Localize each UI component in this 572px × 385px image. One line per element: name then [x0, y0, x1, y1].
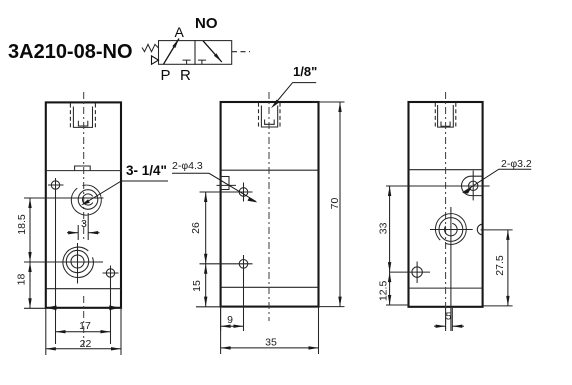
svg-text:27.5: 27.5: [494, 255, 506, 276]
middle view port recess solid profile: [261, 106, 277, 128]
valve symbol port label R: [180, 67, 191, 84]
dimension 22: [46, 308, 121, 355]
svg-text:3- 1/4": 3- 1/4": [126, 163, 167, 178]
middle view top cap line: [221, 169, 319, 171]
right view top pilot hole inner circle: [469, 181, 478, 190]
dimension 17: [56, 320, 111, 332]
dimension 70: [312, 102, 345, 307]
left view left mounting hole: [48, 178, 64, 344]
svg-text:3: 3: [81, 218, 87, 230]
middle view port recess dashed lines: [259, 103, 281, 129]
right view port recess inner step: [441, 122, 450, 127]
right view left mounting hole: [412, 262, 422, 284]
left view port recess solid profile: [73, 107, 92, 128]
right view port recess dashed lines: [435, 103, 456, 129]
leader 2-phi4.3: [172, 160, 258, 202]
middle view vertical centerline: [268, 92, 270, 321]
valve symbol flow arrow P to A: [164, 39, 180, 65]
left view bottom port outer circle: [63, 247, 93, 277]
left view top port outer circle: [71, 185, 101, 215]
svg-text:A: A: [175, 24, 185, 40]
svg-text:9: 9: [227, 314, 233, 326]
svg-text:22: 22: [80, 338, 92, 350]
valve symbol right box: [195, 41, 232, 65]
left view top port inner circle: [78, 190, 98, 210]
left view bottom edge outward arrows: [47, 305, 120, 310]
dimension 18.5: [16, 198, 30, 262]
dimension 3 offset: [67, 213, 100, 240]
leader 2-phi3.2: [462, 158, 532, 194]
svg-text:R: R: [180, 67, 191, 84]
right view body outline: [409, 102, 483, 307]
dimension 33: [378, 186, 490, 272]
middle view lower hole vertical extension: [243, 255, 245, 331]
svg-text:15: 15: [191, 280, 203, 292]
right view top cap line: [409, 169, 483, 171]
right view top pilot hole crosshair: [472, 171, 474, 201]
left view bottom port inner circle: [71, 255, 84, 268]
dimension 26: [190, 192, 206, 264]
svg-text:2-φ4.3: 2-φ4.3: [172, 160, 203, 172]
left view top port thread arc: [82, 194, 92, 205]
title 3A210-08-NO: [8, 41, 133, 63]
left view vertical centerline: [83, 92, 85, 239]
dimension 5: [434, 308, 464, 331]
valve symbol dashed actuation line: [232, 51, 250, 53]
left view port recess dashed lines: [70, 104, 95, 130]
left view body outline: [46, 102, 121, 307]
right view center port vertical line: [450, 207, 452, 331]
valve symbol label NO: [195, 15, 218, 32]
right view left hole horizontal line: [390, 271, 430, 273]
left view top port horizontal centerline: [24, 197, 104, 199]
valve symbol blocked port T right box: [198, 60, 206, 64]
left view bottom port middle circle: [66, 250, 88, 272]
left view port recess inner step: [78, 121, 87, 126]
valve symbol port label A: [175, 24, 185, 40]
middle view body outline: [221, 102, 319, 307]
middle view lower mounting hole: [239, 260, 248, 269]
svg-text:2-φ3.2: 2-φ3.2: [501, 158, 532, 170]
middle view lower hole horizontal line: [200, 263, 253, 265]
svg-text:35: 35: [265, 337, 277, 349]
right view bottom cap line: [409, 287, 483, 289]
valve symbol spring: [142, 44, 159, 51]
valve symbol blocked port T left box: [183, 60, 191, 64]
dimension 9: [221, 307, 244, 331]
valve symbol pilot triangle: [152, 56, 159, 64]
right view center port horizontal centerline: [430, 229, 473, 231]
right view top pilot hole outer circle: [462, 176, 483, 195]
middle view mounting boss square: [217, 177, 237, 190]
right view vertical centerline: [445, 92, 447, 331]
dimension 35: [221, 307, 319, 354]
dimension 12.5: [378, 272, 410, 305]
svg-text:5: 5: [446, 311, 452, 323]
right view port recess solid profile: [438, 105, 454, 127]
svg-text:P: P: [161, 67, 171, 84]
middle view upper mounting hole: [239, 183, 248, 202]
left view right mounting hole: [103, 266, 119, 345]
svg-text:18.5: 18.5: [16, 214, 28, 235]
valve symbol left box: [159, 41, 196, 65]
left view top boss tab: [75, 166, 91, 171]
leader 1/8 inch: [271, 64, 317, 108]
valve symbol port label P: [161, 67, 171, 84]
middle view bottom cap line: [221, 286, 319, 288]
leader 3- 1/4 inch: [81, 163, 168, 205]
svg-text:70: 70: [329, 198, 341, 210]
left view bottom cap line: [46, 288, 121, 290]
middle view upper hole horizontal line: [200, 191, 253, 193]
svg-text:33: 33: [378, 222, 390, 234]
svg-text:3A210-08-NO: 3A210-08-NO: [8, 41, 133, 63]
left view centerline extension below body: [83, 296, 85, 346]
svg-text:26: 26: [190, 222, 202, 234]
middle view port recess inner step: [265, 120, 275, 125]
left view top cap line: [46, 170, 121, 172]
right view center port thread arc: [445, 223, 458, 235]
svg-text:12.5: 12.5: [378, 281, 390, 302]
right view center port middle circle: [439, 218, 463, 242]
left view bottom port horizontal centerline: [24, 261, 103, 263]
dimension 15: [191, 264, 223, 307]
svg-text:1/8": 1/8": [293, 64, 317, 79]
right view center port outer circle: [435, 214, 466, 245]
dimension 18: [16, 262, 47, 308]
dimension 27.5: [481, 230, 513, 306]
svg-text:17: 17: [79, 320, 91, 332]
left view bottom port vertical centerline: [77, 243, 79, 284]
svg-text:18: 18: [16, 274, 28, 286]
svg-text:NO: NO: [195, 15, 218, 32]
right view side port semicircle: [477, 224, 482, 235]
valve symbol flow arrow right box: [203, 41, 222, 62]
